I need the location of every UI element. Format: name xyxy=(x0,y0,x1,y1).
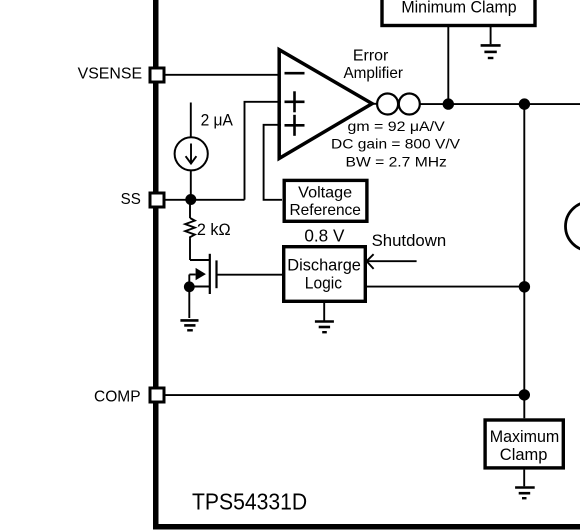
current source I1 (2 uA) xyxy=(175,103,208,200)
minus sign (inverting input) xyxy=(285,72,305,75)
ground below Minimum Clamp xyxy=(481,26,501,59)
svg-text:0.8 V: 0.8 V xyxy=(304,226,345,246)
junction dot at output / right rail xyxy=(519,98,530,109)
wire: Minimum Clamp to error amp output node xyxy=(447,26,449,105)
svg-text:BW = 2.7 MHz: BW = 2.7 MHz xyxy=(346,154,447,170)
ground below Q1 xyxy=(180,320,198,330)
svg-text:Clamp: Clamp xyxy=(500,445,548,464)
ground below Discharge Logic xyxy=(315,303,334,332)
svg-text:VSENSE: VSENSE xyxy=(78,66,143,83)
box: Voltage Reference xyxy=(284,180,367,221)
svg-text:Reference: Reference xyxy=(290,202,361,219)
plus sign (noninverting input 1) xyxy=(285,91,305,112)
box: Minimum Clamp xyxy=(382,0,535,26)
wire: COMP to right rail xyxy=(166,394,525,396)
label Error Amplifier xyxy=(343,48,403,83)
wire: right vertical rail xyxy=(523,104,525,418)
svg-text:Maximum: Maximum xyxy=(490,427,560,446)
error amp output circles (gm output stage) xyxy=(372,94,420,115)
svg-text:2 μA: 2 μA xyxy=(201,111,234,130)
wire: Q1 source to ground xyxy=(188,287,190,318)
wire: error amp output bus xyxy=(420,103,580,105)
wire: VSENSE to error amp inverting input xyxy=(166,74,282,76)
plus sign (noninverting input 2) xyxy=(285,115,305,136)
label gm / DC gain / BW parameters xyxy=(331,118,461,170)
svg-text:Discharge: Discharge xyxy=(287,256,361,275)
shutdown input arrow xyxy=(367,254,417,269)
wire: Q1 gate to Discharge Logic xyxy=(217,274,284,276)
IC boundary (TPS54331D package outline) xyxy=(153,0,580,530)
wire: noninverting input 2 to Voltage Reference xyxy=(264,125,282,200)
junction dot SS node xyxy=(185,194,196,205)
ground below Maximum Clamp xyxy=(515,470,535,499)
svg-text:Minimum Clamp: Minimum Clamp xyxy=(401,0,516,16)
box: Discharge Logic xyxy=(284,247,366,302)
svg-text:TPS54331D: TPS54331D xyxy=(192,489,307,515)
pin VSENSE xyxy=(150,68,164,82)
junction dot rail / COMP xyxy=(519,389,530,400)
resistor R1 (2 kOhm) xyxy=(185,204,195,260)
wire: SS node up to noninverting input 1 xyxy=(245,102,282,200)
svg-text:gm = 92 μA/V: gm = 92 μA/V xyxy=(348,118,446,134)
svg-text:COMP: COMP xyxy=(94,389,141,406)
wire: Discharge Logic output to right rail xyxy=(367,286,524,288)
svg-text:SS: SS xyxy=(121,191,141,208)
wire: SS pin to SS node xyxy=(166,199,245,201)
junction dot rail / discharge output xyxy=(519,281,530,292)
transistor Q1 (SS discharge MOSFET) xyxy=(189,254,217,294)
svg-text:Voltage: Voltage xyxy=(298,184,352,201)
pin COMP xyxy=(150,388,164,402)
op-amp U1 Error Amplifier xyxy=(279,50,372,159)
junction dot at output / Minimum Clamp xyxy=(443,98,454,109)
PWM comparator input circle (partial, right edge) xyxy=(566,202,580,251)
box: Maximum Clamp xyxy=(485,420,563,468)
junction dot Q1 source/body xyxy=(184,281,195,292)
svg-text:DC gain = 800 V/V: DC gain = 800 V/V xyxy=(331,137,461,153)
svg-text:Error: Error xyxy=(353,48,388,65)
svg-text:2 kΩ: 2 kΩ xyxy=(197,220,231,239)
svg-text:Amplifier: Amplifier xyxy=(343,65,403,82)
svg-text:Logic: Logic xyxy=(305,274,342,293)
pin SS xyxy=(150,193,164,207)
svg-text:Shutdown: Shutdown xyxy=(372,231,447,250)
